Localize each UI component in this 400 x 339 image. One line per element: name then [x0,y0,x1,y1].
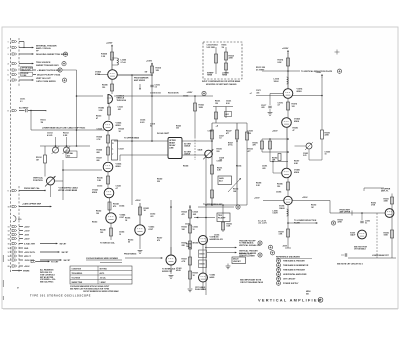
terminal pin 14 lower group [8,237,31,240]
terminal stub extra [12,269,30,272]
tube V1044 output [106,213,126,223]
svg-text:FROM SWP CAL: FROM SWP CAL [24,187,40,190]
label V1053 left [128,239,133,243]
svg-text:TIME BASE A TRIGGER: TIME BASE A TRIGGER [283,260,305,263]
svg-text:AUTO: AUTO [100,272,105,275]
wire below V1043 [109,198,111,213]
svg-text:TERM: TERM [222,75,228,77]
wire input row [19,110,25,112]
svg-text:-8.2 +0.2%: -8.2 +0.2% [258,223,267,225]
gain network main frame [211,123,247,205]
svg-text:6DK6: 6DK6 [92,192,98,194]
svg-text:10: 10 [193,229,195,231]
svg-text:150: 150 [102,87,105,89]
trim box T1021 [225,112,232,117]
input compensation dashed box [203,42,242,79]
svg-text:680: 680 [97,152,100,154]
wire input row b [28,110,46,111]
svg-text:TYPE 551 STORAGE OSCILLOSCO: TYPE 551 STORAGE OSCILLOSCOPE [30,294,91,297]
label delay feed r [176,124,181,129]
svg-text:7: 7 [8,80,9,82]
wire column x190 [189,205,191,288]
svg-text:5-25: 5-25 [303,155,306,157]
comp branch 1 [207,45,218,74]
svg-text:+350V: +350V [302,197,308,199]
svg-text:8-50: 8-50 [226,103,230,105]
resistor R1044 [108,202,120,210]
svg-text:10: 10 [8,207,10,209]
svg-text:8-50: 8-50 [248,133,252,135]
svg-text:DEFL PL: DEFL PL [381,191,389,193]
wire V1063 bottom [169,265,174,278]
value label 1 [20,99,25,103]
value label 19 [293,127,298,131]
svg-text:6.3VAC HTR: 6.3VAC HTR [24,242,36,245]
svg-text:.005: .005 [193,214,197,216]
svg-text:150: 150 [215,103,218,105]
wire delay line upper feed [114,140,168,142]
terminal pin 3 upper group [8,53,17,56]
svg-text:12AU6: 12AU6 [279,207,285,210]
junction row dc shift [256,67,289,72]
svg-text:CATH FOLLOWER: CATH FOLLOWER [239,255,255,258]
value label 27 [217,160,222,162]
svg-text:C1058: C1058 [185,223,190,225]
svg-text:CONDITION: CONDITION [72,268,82,270]
svg-text:SELECTOR: SELECTOR [21,70,31,72]
attenuator trim caps row wire [40,145,90,147]
wire column x223 [222,205,224,232]
terminal pin 8 input [8,109,17,112]
resistor R1051 [139,207,150,215]
wire input bus vertical [30,111,32,131]
value label 7 [97,157,102,161]
wire pickoff row [114,95,213,97]
registration cross [335,50,340,55]
gain pot lower [198,148,214,159]
terminal pin 12 lower group [8,229,31,232]
svg-text:1-8: 1-8 [219,138,222,140]
resistor ladder c [272,154,281,162]
value label 26 [248,148,253,152]
svg-text:SW CRT: SW CRT [60,243,68,245]
svg-text:AMP UPPER: AMP UPPER [340,211,351,214]
svg-text:AMPL V1014-A: AMPL V1014-A [36,47,51,50]
value label 9 [97,185,102,187]
crt tube lower [350,230,366,239]
trimmer capacitor C1013 [47,132,59,154]
svg-text:477 A: 477 A [228,144,233,147]
label -150V right [282,245,291,248]
wire attenuator row [31,129,104,131]
crt label mid [371,202,376,206]
terminal pin 16 lower group [8,247,29,250]
terminal pin 19 lower group [8,259,72,262]
svg-text:CONN: CONN [21,75,27,77]
svg-text:R1056 470: R1056 470 [214,238,223,241]
value label 12 [119,204,124,207]
resistor right col [321,96,330,156]
vert sig arrow row 1 [207,244,273,249]
svg-text:THROUGH: THROUGH [117,100,127,102]
trimmer capacitor C1014 [63,132,71,154]
tube V1024 second pentode [103,121,122,131]
svg-text:.005: .005 [256,93,259,95]
label vert sig out [36,78,67,83]
svg-text:.001: .001 [118,109,122,111]
value label 14 [150,213,155,217]
svg-text:ADJ: ADJ [219,180,223,183]
power label +350V right [272,130,278,132]
value label 28 [236,164,241,167]
svg-text:B1073: B1073 [200,254,205,256]
svg-text:GAIN: GAIN [198,148,203,151]
svg-text:20: 20 [8,266,10,268]
tube V1034 third stage [103,162,122,172]
svg-text:0.001: 0.001 [140,122,145,124]
svg-text:15: 15 [8,244,10,246]
svg-text:2: 2 [8,48,9,50]
value label 17 [186,243,191,247]
svg-text:10: 10 [119,234,121,236]
value label 33 [311,204,316,208]
reference item 4 [277,272,308,276]
crt top label [381,188,391,192]
svg-text:47: 47 [96,117,98,120]
interconnect bus dashed line inner lower [18,186,20,272]
wire grid V1085 [272,161,282,173]
svg-text:HORIZONTAL AMPLIFIER: HORIZONTAL AMPLIFIER [283,273,307,276]
wire below V1044 [110,223,112,240]
resistor R1074 [278,58,290,66]
resistor R1066 [182,241,199,249]
label marker input [134,76,149,81]
resistor mid network [211,165,223,174]
resistor R1025 [97,135,110,143]
value label 32 [183,164,188,167]
svg-text:11: 11 [8,227,10,229]
resistor R1021 dropper [194,103,205,111]
svg-text:1 MSEC: 1 MSEC [100,282,107,284]
crt note text [354,246,368,250]
wire delay out lower [182,154,206,156]
switch wafer box lower [21,72,33,77]
wire below V1034 [107,172,109,188]
label pickoff row b [168,91,179,94]
svg-text:SEE IMPORTANT NOTE: SEE IMPORTANT NOTE [240,278,262,281]
svg-text:13: 13 [8,235,10,237]
label C1071 [256,90,261,94]
to upper beam row [198,203,240,209]
resistor R1045 [100,228,113,236]
value label 5 [97,127,102,130]
crt row wire [352,211,385,216]
bypass cap C1077 [261,99,272,115]
svg-text:470K: 470K [338,221,343,224]
svg-text:477: 477 [248,150,251,153]
svg-text:330K: 330K [384,201,389,203]
interconnect bus dashed line inner upper [18,38,20,86]
resistor R1012 [36,146,47,177]
tube V1084 input pentode [95,70,117,80]
svg-text:100K: 100K [384,235,389,237]
wire plate row V1084 [117,74,152,76]
label attenuator row [42,127,85,130]
wire pin6 [33,73,61,76]
svg-text:POWER SUPPLY: POWER SUPPLY [283,283,299,285]
wire between V1073 V1083 [202,245,204,274]
wire long dropper vertical [76,70,78,147]
svg-text:150: 150 [277,186,280,188]
svg-text:LINE: LINE [169,147,174,149]
wire trigger row arrows [194,217,215,219]
svg-text:CABLE: CABLE [184,145,191,148]
svg-text:2.7K: 2.7K [97,139,102,141]
resistor R1084 [101,52,114,60]
wire grid line to V1034 [62,169,102,171]
to lower defl arrow [287,220,335,225]
svg-text:12: 12 [8,231,10,233]
svg-text:1M: 1M [36,159,39,161]
neon box TD2 [199,260,207,268]
svg-text:910: 910 [217,151,220,153]
svg-text:3.3K: 3.3K [99,110,104,112]
label net +A [216,124,219,127]
svg-text:1.8K: 1.8K [97,180,102,182]
trigger circref a [239,240,262,245]
svg-text:6DK6: 6DK6 [294,172,300,174]
svg-text:680: 680 [97,160,100,162]
value label 13 [125,216,130,221]
wire mid bus down [205,155,207,295]
svg-text:6DJ8: 6DJ8 [176,270,181,272]
terminal pin 1 upper group [8,40,17,43]
svg-text:9: 9 [8,191,9,193]
label inside frame c [219,157,224,161]
svg-text:+225V: +225V [187,92,194,94]
wire wafer to dropper [62,69,77,71]
wire output row left [254,198,284,201]
tube V1073 upper [199,236,215,245]
value label 15 [157,237,162,241]
crt left label [338,219,343,223]
cathode chain V1083 [99,104,111,120]
svg-text:+350V: +350V [135,200,141,202]
terminal pin 17 lower group [8,251,70,254]
svg-text:SWEEP TRIGGER SW1: SWEEP TRIGGER SW1 [36,65,59,67]
svg-text:56: 56 [128,242,130,244]
svg-text:R1043: R1043 [92,220,97,223]
delay line termination block [112,140,118,160]
svg-text:220: 220 [157,181,160,183]
label trigger source [36,62,66,67]
important note text [240,278,264,284]
svg-text:B1074: B1074 [200,263,205,266]
crt inner vertical [376,213,378,258]
svg-text:4.7: 4.7 [278,104,281,107]
capacitor C1016 [150,84,159,88]
svg-text:SW CRT: SW CRT [62,252,70,254]
value label 11 [96,209,101,214]
svg-text:1.2K: 1.2K [101,56,106,58]
svg-text:SW CRT: SW CRT [64,260,72,262]
tube V1074 right input [283,87,303,98]
svg-text:+350V: +350V [272,130,278,132]
crt top rail [364,188,384,191]
svg-text:1: 1 [8,42,9,44]
svg-text:PICKOFF: PICKOFF [218,218,225,220]
comp box label right branch [222,45,227,49]
wire V1053 plate supply [135,200,141,225]
cathode parts V1074 [278,98,298,117]
svg-text:TO SW1020 CAL: TO SW1020 CAL [100,241,116,244]
wire delay line lower feed [120,155,168,161]
value label 18 [162,267,176,272]
value label 34 [256,182,261,186]
wire pot to cathode line [55,160,63,200]
parts table text [72,268,108,284]
svg-text:5: 5 [8,70,9,72]
crt right column wire [391,194,393,259]
svg-text:+225V: +225V [24,226,30,228]
svg-text:CATH V1034 SW555: CATH V1034 SW555 [36,80,56,83]
right ladder frame [262,127,289,168]
svg-text:470: 470 [113,205,116,208]
resistor R1035 [97,176,110,184]
svg-text:SETTING: SETTING [100,268,108,270]
label gain upper b [226,101,231,105]
resistor R1055 [222,222,232,230]
resistor net bottom left [211,190,214,198]
reference diagrams heading [276,255,312,258]
resistor R1026 [97,147,110,155]
value label 31 [157,177,162,182]
trigger pickoff box [217,213,230,222]
crt resistor upper [384,197,394,204]
label gain upper a [215,101,220,105]
crt mid cap [360,212,370,224]
terminal pin 15 lower group [8,242,68,245]
wire grid V1074 [270,94,283,100]
label pickoff row a [150,92,161,94]
svg-text:100: 100 [96,213,99,215]
gain adj box [218,176,232,185]
svg-text:AMP SW555: AMP SW555 [134,79,145,82]
svg-text:220K: 220K [229,58,234,60]
svg-text:SEE NOTE CRT CIRCUIT NO 2: SEE NOTE CRT CIRCUIT NO 2 [337,263,363,265]
svg-text:C1024: C1024 [97,127,102,130]
wire output row right [292,197,330,200]
cathode resistor R1085 [102,79,114,94]
wire +100V dropper [151,64,153,141]
label below V1044 [100,241,116,244]
parts table box [70,266,132,284]
value label 10 [116,184,121,189]
concentric cable note [58,186,79,191]
svg-text:TERM: TERM [207,75,213,77]
svg-text:16: 16 [8,248,10,250]
parts table top rule [86,257,122,262]
svg-text:-150V DCPL: -150V DCPL [24,260,36,262]
node grid V1014 [46,110,47,111]
wire V1053 cathode [139,235,141,249]
svg-text:LOWER BEAM DELAY LINE CABLE 1: LOWER BEAM DELAY LINE CABLE 184FT RG63 [42,127,85,130]
value label 21 [294,160,299,164]
resistor ladder a [253,141,264,149]
svg-text:C1019 0.001: C1019 0.001 [150,92,161,94]
svg-text:477: 477 [226,132,229,135]
svg-text:100: 100 [100,232,103,234]
svg-text:+225V: +225V [106,43,113,45]
tube V1085 right third [282,168,301,178]
svg-text:SEE PARTS LIST FOR SEMICON: SEE PARTS LIST FOR SEMICONDUCTOR TYPES [70,288,110,291]
wire net bottom row [206,204,247,206]
svg-text:C1044: C1044 [119,204,124,207]
resistor R1064 [182,210,198,218]
svg-text:470: 470 [157,239,160,242]
tube V1053 output CF [135,225,155,235]
svg-text:-150V: -150V [24,234,30,236]
svg-text:6CB6: 6CB6 [95,74,101,76]
wire V1063 top [170,247,172,255]
delay line box [157,132,182,159]
svg-text:470: 470 [182,213,185,216]
tube V1043 driver [92,188,114,198]
svg-text:CIRCUIT DIAGRAM PAGE: CIRCUIT DIAGRAM PAGE [240,281,264,284]
resistor R1097 [279,229,290,237]
wire output to crt [330,201,352,214]
value label 22 [276,191,281,193]
terminal pin 20 lower group [8,265,31,268]
label to vert defl upper [288,69,342,73]
svg-text:6: 6 [8,75,9,77]
tube V1094 right output [284,196,292,204]
svg-text:10UH: 10UH [274,81,279,83]
svg-text:18: 18 [8,256,10,258]
power label +225V input stage [106,43,113,49]
power label +225V centre [187,91,207,95]
svg-text:HTR CT: HTR CT [24,256,32,258]
bracket lower connector [13,216,22,222]
trigger circref b [239,253,262,258]
wire right row left seg [250,93,284,95]
cathode V1085 [277,178,290,197]
ground V1053 [138,251,143,254]
svg-text:0.6UH: 0.6UH [273,213,279,215]
value label 6 [119,127,124,132]
coupling capacitor C1011 [26,109,28,112]
wire stub pin1 [19,41,24,43]
ground column x190 [188,289,193,292]
sheet title vertical amplifier [258,297,323,302]
value label 36 [92,220,97,223]
svg-text:6DK6: 6DK6 [116,166,122,168]
terminal pin 5 upper group [8,69,17,72]
svg-text:+100V: +100V [254,198,260,200]
marker feed arrow [139,84,141,90]
reference item 6 [277,281,300,285]
wire below V1024 [107,131,109,161]
svg-text:TO UPPER BEAM AMP: TO UPPER BEAM AMP [203,203,223,206]
svg-text:TIME BASE B TRIGGER: TIME BASE B TRIGGER [283,269,305,272]
svg-text:4.5-25: 4.5-25 [47,134,52,137]
svg-text:1W: 1W [145,72,148,74]
svg-text:CRT CIRCUIT: CRT CIRCUIT [283,279,296,281]
wire pin2 to arrow [19,42,34,49]
svg-text:SEE CAL PROC: SEE CAL PROC [40,281,54,284]
label R1027 [226,131,232,135]
ground mid bottom [226,264,231,269]
